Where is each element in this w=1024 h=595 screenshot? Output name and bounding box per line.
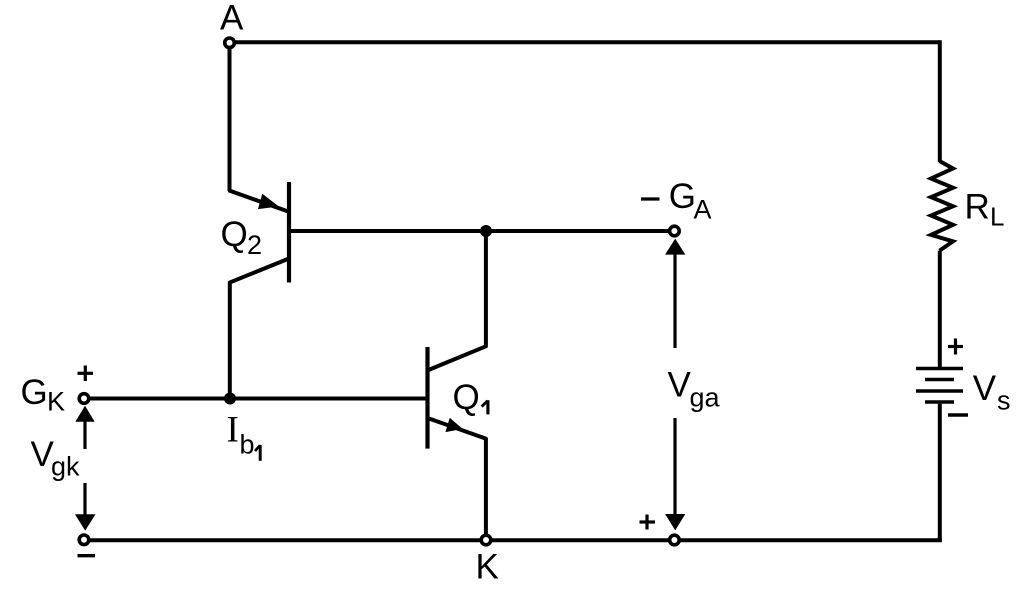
- wire Q2 collector down to junction Ib1: [228, 281, 232, 398]
- battery minus sign: [948, 413, 968, 416]
- svg-text:K: K: [476, 548, 499, 587]
- svg-text:I: I: [227, 410, 239, 451]
- Vga arrow upper line: [673, 255, 676, 349]
- svg-text:Q: Q: [453, 378, 480, 417]
- svg-text:Q: Q: [221, 215, 248, 254]
- transistor Q2 emitter diagonal: [229, 190, 288, 211]
- wire top from node A to top-right corner: [229, 40, 940, 44]
- transistor Q2 collector diagonal: [229, 259, 289, 283]
- terminal K circle: [481, 535, 491, 545]
- transistor Q1 base bar: [425, 347, 429, 449]
- transistor Q1 emitter arrow: [446, 418, 462, 431]
- svg-text:K: K: [47, 387, 65, 417]
- terminal Vga bottom circle: [670, 535, 680, 545]
- wire gate GK to Q1 base: [84, 397, 426, 401]
- svg-text:A: A: [694, 195, 712, 225]
- resistor RL zigzag: [931, 161, 953, 251]
- svg-text:2: 2: [247, 230, 262, 260]
- svg-text:V: V: [668, 366, 692, 405]
- Vga arrow upper head: [665, 239, 685, 255]
- junction Ib1: [224, 393, 236, 405]
- terminal GK circle: [79, 394, 89, 404]
- transistor Q1 emitter diagonal: [428, 418, 487, 439]
- plus sign left of Vga bottom terminal: [640, 515, 656, 530]
- svg-text:L: L: [990, 202, 1004, 232]
- wire from battery to bottom-right corner: [938, 404, 942, 541]
- svg-text:ga: ga: [690, 383, 721, 413]
- minus sign below bottom-left terminal: [78, 554, 96, 557]
- svg-text:G: G: [669, 177, 696, 216]
- transistor Q2 emitter arrow into base: [259, 194, 278, 208]
- battery VS plate short: [925, 378, 954, 381]
- battery VS plate long: [916, 389, 963, 392]
- svg-text:R: R: [965, 188, 990, 227]
- terminal A circle: [225, 38, 235, 48]
- transistor Q2 base bar: [287, 182, 291, 283]
- junction Q2 base / Q1 collector: [480, 225, 492, 237]
- svg-text:b: b: [240, 430, 255, 460]
- battery plus sign: [948, 339, 963, 355]
- battery VS plate long top: [916, 367, 963, 370]
- transistor Q1 collector diagonal: [428, 346, 487, 370]
- terminal bottom-left circle: [79, 535, 89, 545]
- Vgk arrow lower head: [75, 514, 96, 530]
- label minus GA: [641, 197, 660, 200]
- wire from resistor to battery: [938, 251, 942, 368]
- svg-text:A: A: [220, 0, 244, 38]
- wire Q1 emitter down to cathode K: [484, 438, 488, 541]
- Vgk arrow upper head: [75, 406, 94, 422]
- svg-text:gk: gk: [51, 452, 80, 482]
- svg-text:G: G: [21, 373, 48, 412]
- Vgk arrow upper line: [83, 421, 86, 449]
- wire right side down to resistor: [938, 40, 942, 162]
- plus sign above GK: [78, 366, 94, 382]
- Vgk arrow lower line: [83, 483, 86, 516]
- Vga arrow lower head: [665, 514, 685, 530]
- svg-text:V: V: [973, 369, 997, 408]
- terminal GA circle: [670, 226, 680, 236]
- wire from node A down to Q2 emitter: [228, 43, 232, 191]
- Vga arrow lower line: [673, 418, 676, 515]
- battery VS plate short bottom: [925, 400, 954, 403]
- wire Q2 base to gate GA: [289, 229, 669, 233]
- wire Q1 collector up to junction: [484, 231, 488, 348]
- svg-text:s: s: [997, 386, 1011, 416]
- wire bottom from right corner to left terminal: [84, 538, 942, 542]
